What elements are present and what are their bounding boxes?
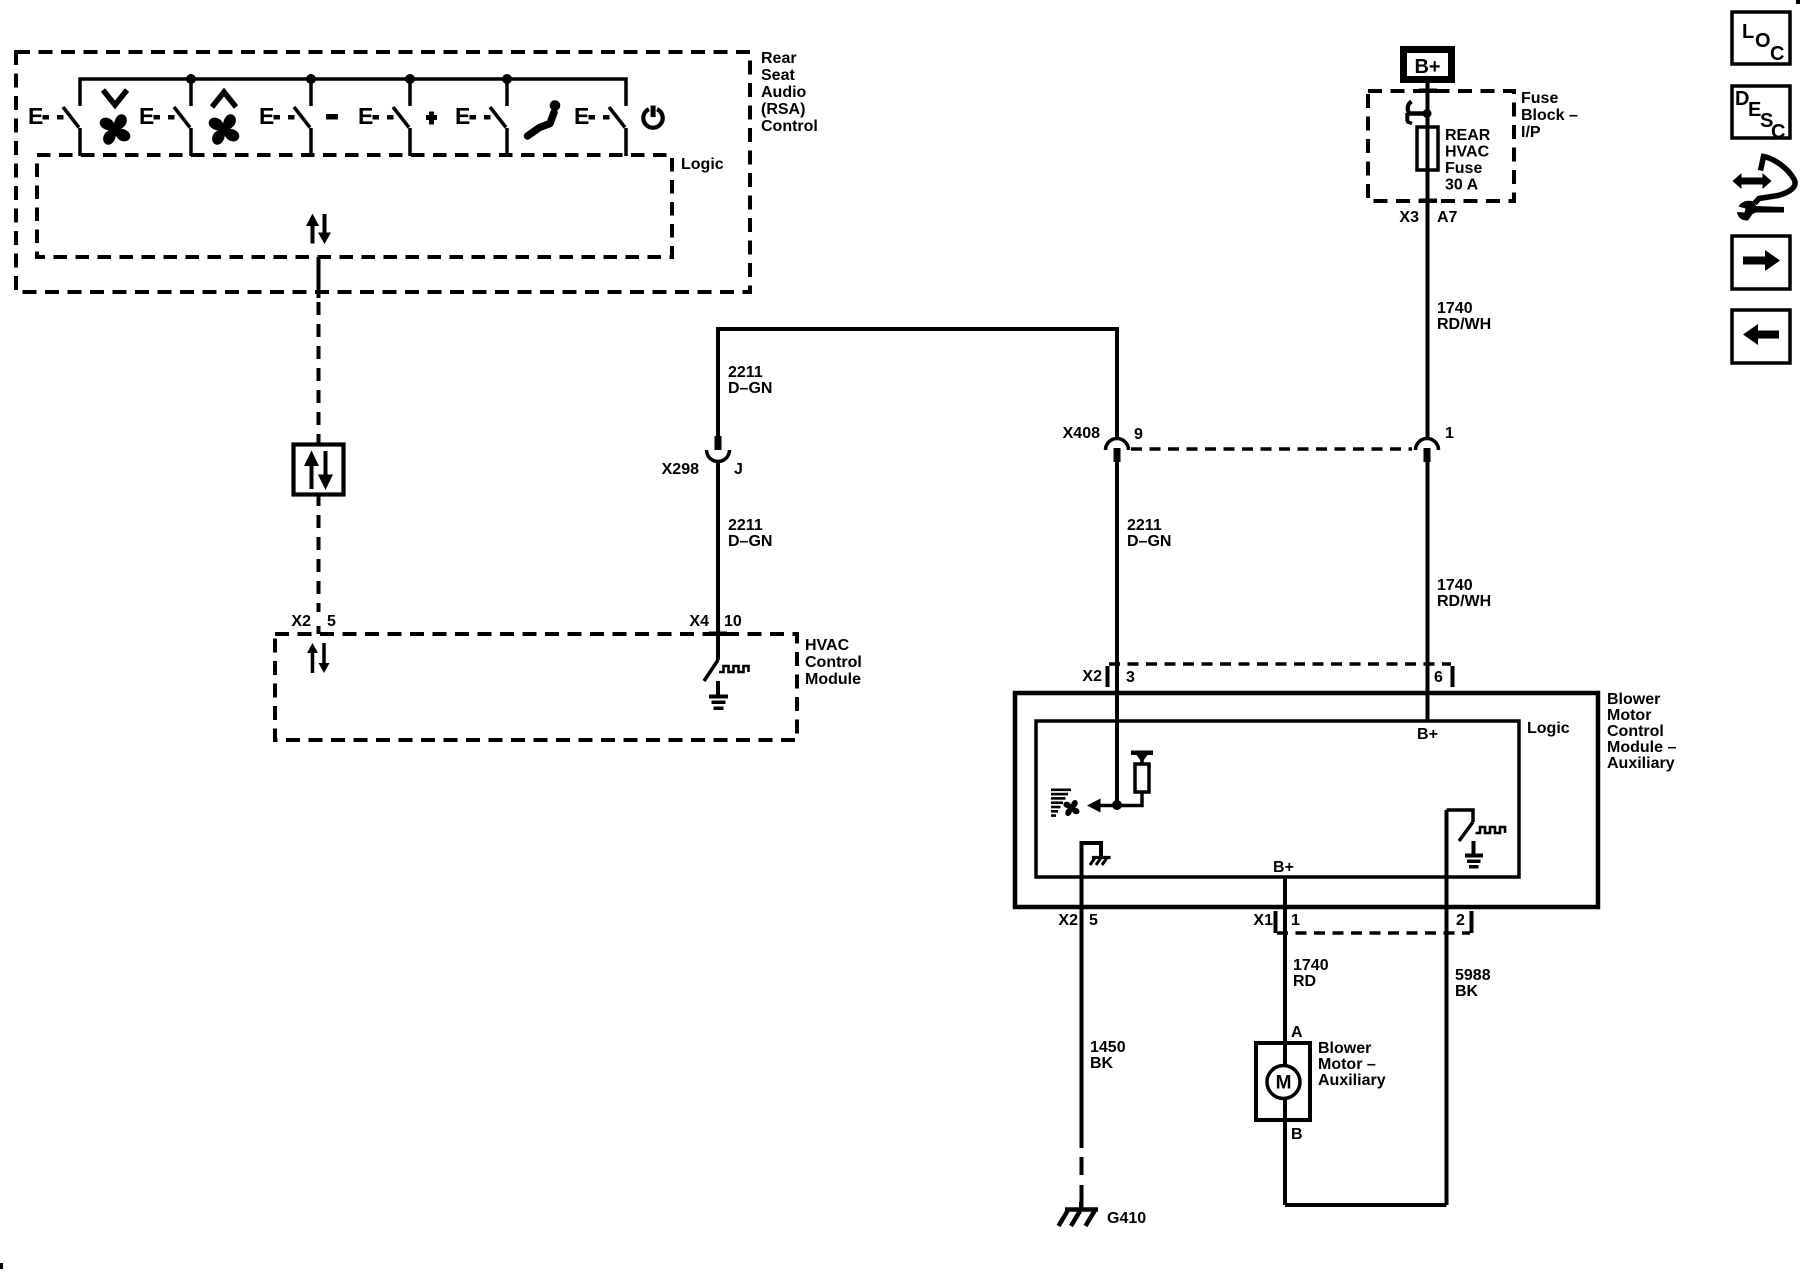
- svg-text:Fuse: Fuse: [1445, 160, 1482, 177]
- svg-text:RD/WH: RD/WH: [1437, 593, 1491, 610]
- svg-text:RD: RD: [1293, 973, 1316, 990]
- svg-text:2211: 2211: [728, 517, 763, 534]
- ground symbol in HVAC module: [709, 681, 728, 710]
- svg-text:E: E: [455, 103, 470, 129]
- svg-text:X3: X3: [1399, 209, 1419, 226]
- svg-text:C: C: [1771, 121, 1785, 143]
- svg-text:BK: BK: [1090, 1055, 1114, 1072]
- battery feed B+ box: [1404, 50, 1452, 80]
- icon fan speed up: [206, 92, 242, 148]
- wire 5988 BK full drop from hook to bottom loop: [1445, 810, 1449, 1205]
- wire: bus drop stubs: [191, 79, 507, 106]
- svg-text:D–GN: D–GN: [728, 380, 772, 397]
- svg-text:D–GN: D–GN: [728, 533, 772, 550]
- svg-text:X408: X408: [1063, 425, 1100, 442]
- label Blower Motor - Auxiliary: [1318, 1040, 1386, 1089]
- svg-text:10: 10: [724, 613, 742, 630]
- Fuse Block I/P dashed box: [1368, 91, 1514, 201]
- internal PWM switch to ground (right): [1447, 810, 1506, 869]
- fan speed icon in logic: [1051, 789, 1071, 817]
- internal ground (left) in blower logic: [1082, 843, 1111, 877]
- bus bar tap symbol: [1407, 102, 1432, 124]
- switch in HVAC module (PWM low side): [704, 660, 718, 681]
- svg-text:G410: G410: [1107, 1210, 1146, 1227]
- svg-text:Blower: Blower: [1318, 1040, 1371, 1057]
- Blower Motor - Auxiliary: [1256, 1043, 1310, 1120]
- svg-text:5988: 5988: [1455, 967, 1491, 984]
- in-line connector pin 1: [1416, 439, 1439, 463]
- svg-text:E: E: [259, 103, 274, 129]
- sidebar back arrow box: [1732, 310, 1790, 363]
- svg-text:A7: A7: [1437, 209, 1458, 226]
- sidebar forward arrow box: [1732, 236, 1790, 289]
- svg-text:2211: 2211: [728, 364, 763, 381]
- svg-text:Control: Control: [761, 118, 818, 135]
- svg-text:1450: 1450: [1090, 1039, 1126, 1056]
- svg-text:L: L: [1742, 21, 1754, 43]
- connector X1 bracket below module: [1274, 911, 1474, 933]
- svg-text:1740: 1740: [1293, 957, 1329, 974]
- svg-text:X1: X1: [1253, 912, 1273, 929]
- switch S3 (minus): [259, 103, 311, 156]
- svg-text:1740: 1740: [1437, 300, 1473, 317]
- svg-text:J: J: [734, 461, 743, 478]
- HVAC Control Module dashed box: [275, 634, 797, 740]
- wire B+ X1-1 drop to motor: [1283, 877, 1287, 1205]
- svg-text:I/P: I/P: [1521, 124, 1541, 141]
- RSA logic serial data arrows up/down: [306, 214, 331, 245]
- icon minus: [326, 114, 338, 120]
- svg-text:Block –: Block –: [1521, 107, 1578, 124]
- wire B+ to fuse: [1426, 83, 1430, 437]
- PWM square wave symbol: [719, 666, 749, 672]
- page corner mark bottom left: [0, 1263, 3, 1269]
- wire 1740 RD/WH to blower module pin 6: [1426, 462, 1430, 721]
- switch S4 (plus): [358, 103, 410, 156]
- svg-text:3: 3: [1126, 669, 1135, 686]
- splice X298 J: [707, 436, 730, 462]
- svg-text:HVAC: HVAC: [805, 637, 850, 654]
- svg-text:Fuse: Fuse: [1521, 90, 1558, 107]
- svg-text:REAR: REAR: [1445, 127, 1491, 144]
- wire: switch supply bus: [80, 79, 626, 106]
- connector X2 bracket on blower module: [1106, 664, 1455, 687]
- svg-text:M: M: [1276, 1073, 1292, 1094]
- svg-text:1740: 1740: [1437, 577, 1473, 594]
- svg-text:Logic: Logic: [1527, 720, 1570, 737]
- switch S5 (seat): [455, 103, 507, 156]
- sidebar shortcut icon: [1733, 157, 1796, 221]
- svg-text:Module –: Module –: [1607, 739, 1676, 756]
- svg-text:Control: Control: [1607, 723, 1664, 740]
- page corner mark top right: [1796, 0, 1800, 4]
- svg-text:Motor –: Motor –: [1318, 1056, 1376, 1073]
- svg-text:(RSA): (RSA): [761, 101, 805, 118]
- svg-text:Auxiliary: Auxiliary: [1607, 755, 1675, 772]
- wire: RSA logic output (solid): [317, 257, 321, 298]
- svg-text:E: E: [139, 103, 154, 129]
- Blower Motor Control Module - Auxiliary box: [1015, 693, 1598, 907]
- svg-text:1: 1: [1291, 912, 1300, 929]
- svg-text:Motor: Motor: [1607, 707, 1651, 724]
- HVAC module serial arrows up/down: [307, 643, 330, 673]
- wire: dash at pin: [317, 626, 321, 634]
- svg-text:2: 2: [1456, 912, 1465, 929]
- svg-text:BK: BK: [1455, 983, 1479, 1000]
- svg-text:30 A: 30 A: [1445, 177, 1479, 194]
- svg-text:B+: B+: [1414, 56, 1440, 78]
- svg-text:E: E: [28, 103, 43, 129]
- svg-text:E: E: [574, 103, 589, 129]
- label Rear Seat Audio (RSA) Control: [761, 50, 818, 135]
- fuse REAR HVAC 30A: [1417, 127, 1438, 170]
- switch S1 (fan down): [28, 103, 80, 156]
- internal supply bar and resistor: [1117, 751, 1153, 806]
- junction dots on bus: [186, 74, 512, 84]
- svg-text:HVAC: HVAC: [1445, 144, 1490, 161]
- label REAR HVAC Fuse 30 A: [1445, 127, 1491, 194]
- icon fan speed down: [97, 90, 133, 148]
- icon plus: [426, 112, 437, 125]
- svg-text:E: E: [358, 103, 373, 129]
- junction dot pin3 wire: [1112, 800, 1122, 810]
- ground G410: [1059, 1202, 1099, 1226]
- svg-text:RD/WH: RD/WH: [1437, 316, 1491, 333]
- svg-text:C: C: [1770, 43, 1784, 65]
- svg-text:Auxiliary: Auxiliary: [1318, 1072, 1386, 1089]
- wire to fan drive arrow: [1100, 804, 1117, 808]
- pin ticks on fuse block box: [1419, 89, 1437, 94]
- svg-text:D–GN: D–GN: [1127, 533, 1171, 550]
- serial data link box with arrows: [294, 445, 344, 495]
- svg-text:9: 9: [1134, 426, 1143, 443]
- svg-text:X2: X2: [291, 613, 311, 630]
- wire: dashed serial data down: [317, 302, 321, 443]
- wire 2211 D-GN from X298 to HVAC X4-10: [716, 463, 720, 660]
- wire dashed to G410: [1080, 1157, 1084, 1203]
- svg-text:X2: X2: [1082, 668, 1102, 685]
- svg-text:Logic: Logic: [681, 156, 724, 173]
- wire X2-5 ground drop: [1080, 877, 1084, 1148]
- RSA Logic dashed box: [37, 155, 672, 257]
- svg-text:2211: 2211: [1127, 517, 1162, 534]
- Rear Seat Audio (RSA) Control module dashed box: [16, 52, 750, 292]
- wire 2211 D-GN to blower module pin 3: [1115, 462, 1119, 805]
- svg-text:B: B: [1291, 1126, 1303, 1143]
- switch S2 (fan up): [139, 103, 191, 156]
- switch S6 (power): [574, 103, 626, 156]
- label Fuse Block - I/P: [1521, 90, 1578, 141]
- svg-text:O: O: [1755, 30, 1771, 52]
- icon power: [643, 106, 662, 128]
- icon seat: [528, 100, 561, 136]
- svg-text:Audio: Audio: [761, 84, 807, 101]
- wire bottom loop: [1285, 1203, 1447, 1207]
- svg-text:5: 5: [1089, 912, 1098, 929]
- wire 2211 D-GN upper run: [718, 329, 1117, 437]
- wire: dashed connector tie: [1131, 447, 1412, 451]
- svg-text:Seat: Seat: [761, 67, 795, 84]
- svg-text:X2: X2: [1058, 912, 1078, 929]
- svg-text:X298: X298: [662, 461, 699, 478]
- pin tick X4-10: [709, 632, 727, 637]
- svg-text:5: 5: [327, 613, 336, 630]
- in-line connector X408 pin 9: [1106, 439, 1129, 463]
- blower module Logic box: [1036, 721, 1519, 877]
- svg-text:Rear: Rear: [761, 50, 797, 67]
- svg-text:Blower: Blower: [1607, 691, 1660, 708]
- svg-text:B+: B+: [1417, 726, 1438, 743]
- label Blower Motor Control Module - Auxiliary: [1607, 691, 1676, 772]
- svg-text:A: A: [1291, 1024, 1303, 1041]
- svg-text:6: 6: [1434, 669, 1443, 686]
- label HVAC Control Module: [805, 637, 862, 688]
- svg-text:X4: X4: [689, 613, 709, 630]
- svg-text:B+: B+: [1273, 859, 1294, 876]
- sidebar DESC box: [1732, 86, 1790, 143]
- svg-text:Control: Control: [805, 654, 862, 671]
- svg-text:Module: Module: [805, 671, 861, 688]
- svg-text:1: 1: [1445, 425, 1454, 442]
- wire: dashed serial data to HVAC control module: [317, 493, 321, 612]
- sidebar LOC box: [1732, 12, 1790, 65]
